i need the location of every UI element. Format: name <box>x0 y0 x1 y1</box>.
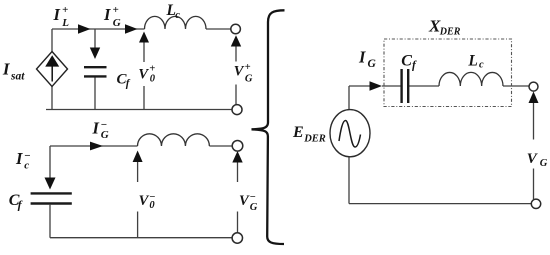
svg-text:I: I <box>53 5 61 24</box>
svg-text:G: G <box>250 202 258 213</box>
svg-text:G: G <box>368 58 377 70</box>
svg-text:C: C <box>401 52 412 69</box>
svg-text:I: I <box>92 119 100 138</box>
svg-text:V: V <box>139 193 150 209</box>
svg-text:I: I <box>103 5 111 24</box>
svg-text:c: c <box>175 10 180 21</box>
svg-text:DER: DER <box>303 133 326 144</box>
svg-text:L: L <box>61 17 69 29</box>
svg-text:c: c <box>479 60 484 71</box>
svg-text:+: + <box>245 62 251 73</box>
svg-text:c: c <box>24 160 29 172</box>
svg-text:V: V <box>138 67 149 83</box>
svg-text:0: 0 <box>150 73 156 84</box>
svg-text:G: G <box>540 158 548 169</box>
svg-text:V: V <box>234 63 245 79</box>
svg-text:+: + <box>62 4 68 16</box>
svg-text:G: G <box>113 17 121 29</box>
svg-text:G: G <box>101 129 109 141</box>
svg-text:L: L <box>467 52 477 69</box>
svg-text:+: + <box>113 4 119 16</box>
svg-text:0: 0 <box>149 200 155 211</box>
svg-text:G: G <box>245 73 253 84</box>
svg-text:V: V <box>239 193 250 209</box>
svg-text:I: I <box>358 47 366 66</box>
svg-text:DER: DER <box>439 27 461 38</box>
svg-text:I: I <box>15 149 23 168</box>
svg-text:E: E <box>292 124 304 141</box>
svg-text:sat: sat <box>10 71 25 83</box>
